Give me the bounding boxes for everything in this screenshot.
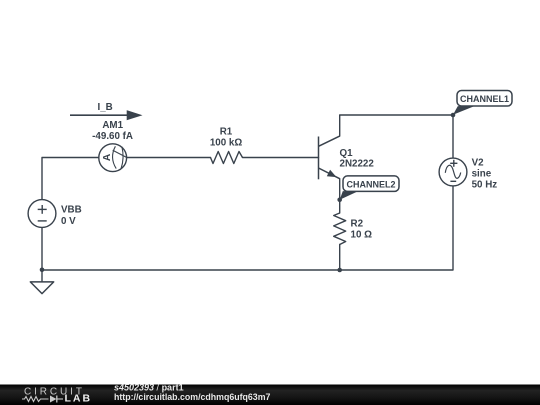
transistor Q1 xyxy=(319,136,340,179)
CHANNEL1 tail xyxy=(453,106,474,115)
wire VBB top to ammeter xyxy=(42,158,99,200)
svg-text:R2: R2 xyxy=(351,219,364,230)
ground stub xyxy=(41,270,43,282)
wire top node down to V2 xyxy=(452,115,454,158)
resistor R2 xyxy=(334,213,346,245)
ground xyxy=(30,282,53,294)
svg-text:A: A xyxy=(102,153,113,161)
logo squiggle resistor xyxy=(22,397,49,402)
wire V2 bottom to bottom rail xyxy=(42,186,453,270)
svg-text:2N2222: 2N2222 xyxy=(340,159,375,170)
wire VBB bottom xyxy=(41,227,43,270)
Q1 emitter arrow xyxy=(327,170,337,177)
wire ammeter right to R1 xyxy=(127,157,211,159)
svg-text:s4502393 / part1: s4502393 / part1 xyxy=(114,382,184,392)
svg-text:V2: V2 xyxy=(472,157,485,168)
svg-text:50 Hz: 50 Hz xyxy=(472,179,498,190)
wire emitter to R2 xyxy=(339,179,341,213)
svg-text:Q1: Q1 xyxy=(340,148,354,159)
current arrow I_B xyxy=(70,110,143,120)
footer bar xyxy=(0,385,540,405)
wire R2 to bottom rail xyxy=(339,245,341,271)
node dot top (CHANNEL1) xyxy=(451,113,456,118)
svg-text:CHANNEL1: CHANNEL1 xyxy=(460,94,509,104)
wire collector to top node xyxy=(340,115,453,136)
node dot ground junction xyxy=(40,268,45,273)
svg-text:sine: sine xyxy=(472,168,492,179)
svg-text:0 V: 0 V xyxy=(61,216,76,227)
svg-text:100 kΩ: 100 kΩ xyxy=(210,138,243,149)
voltage source VBB xyxy=(28,200,56,228)
svg-text:VBB: VBB xyxy=(61,205,82,216)
logo diode xyxy=(50,396,57,403)
VBB labels xyxy=(61,205,82,228)
svg-text:CHANNEL2: CHANNEL2 xyxy=(346,180,395,190)
svg-text:10 Ω: 10 Ω xyxy=(351,230,373,241)
source V2 xyxy=(439,158,467,186)
CHANNEL2 tail xyxy=(340,191,359,200)
node dot R2 bottom junction xyxy=(337,268,342,273)
CHANNEL2 box xyxy=(343,176,399,192)
svg-text:I_B: I_B xyxy=(97,102,112,113)
node dot emitter (CHANNEL2) xyxy=(337,198,342,203)
svg-text:R1: R1 xyxy=(220,127,233,138)
svg-text:-49.60 fA: -49.60 fA xyxy=(92,131,133,142)
wire R1 to Q1 base xyxy=(243,157,319,159)
CHANNEL1 box xyxy=(457,91,512,107)
ammeter AM1 xyxy=(99,144,127,172)
svg-text:http://circuitlab.com/cdhmq6uf: http://circuitlab.com/cdhmq6ufq63m7 xyxy=(114,392,271,402)
resistor R1 xyxy=(211,152,243,164)
svg-text:LAB: LAB xyxy=(65,392,93,404)
svg-text:AM1: AM1 xyxy=(102,120,123,131)
